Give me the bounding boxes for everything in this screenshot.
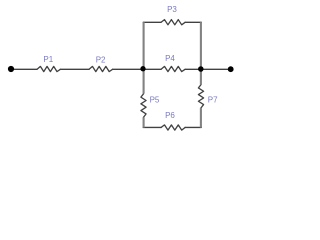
svg-text:P1: P1 — [43, 55, 53, 64]
wire left terminal to P1 — [11, 68, 37, 70]
node B junction dot — [198, 66, 204, 72]
resistor P4 — [161, 66, 185, 71]
wire node B down to P7 — [200, 69, 202, 85]
wire P5 down to bottom branch — [143, 117, 145, 127]
resistor P7 — [198, 85, 203, 108]
svg-text:P4: P4 — [165, 54, 175, 63]
svg-text:P5: P5 — [150, 96, 160, 105]
wire bottom branch right horizontal — [185, 126, 201, 128]
svg-text:P2: P2 — [96, 55, 106, 64]
right terminal dot — [228, 66, 234, 72]
wire P4 through node B to right terminal — [185, 68, 231, 70]
wire node A down to P5 — [143, 69, 145, 94]
resistor P2 — [89, 66, 112, 71]
node A junction dot — [140, 66, 145, 71]
wire P2 through node A to P4 — [113, 68, 162, 70]
resistor P3 — [161, 20, 185, 25]
wire node A up to top branch — [143, 22, 145, 69]
left terminal dot — [8, 66, 14, 72]
resistor P6 — [161, 125, 185, 130]
wire top branch left horizontal — [143, 21, 161, 23]
wire top branch down to node B — [200, 22, 202, 69]
svg-text:P3: P3 — [167, 5, 177, 14]
wire P1 to P2 — [60, 68, 89, 70]
resistor P5 — [141, 94, 146, 117]
svg-text:P7: P7 — [208, 95, 218, 104]
wire bottom branch left horizontal — [143, 126, 161, 128]
svg-text:P6: P6 — [165, 111, 175, 120]
resistor P1 — [37, 66, 60, 71]
wire P7 down to bottom branch — [200, 108, 202, 128]
wire top branch right horizontal — [185, 21, 201, 23]
